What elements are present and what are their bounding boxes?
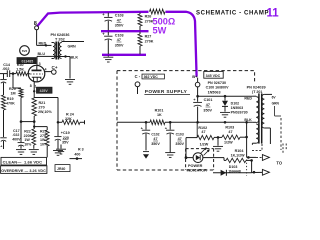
svg-text:400V: 400V [12,138,21,142]
svg-text:47: 47 [117,18,121,22]
svg-text:5W: 5W [153,25,167,35]
svg-text:1N4448: 1N4448 [228,169,241,173]
svg-text:PN 024039: PN 024039 [247,86,266,90]
svg-text:PN 026730: PN 026730 [208,81,226,85]
svg-text:470K: 470K [6,102,15,106]
svg-text:350V: 350V [115,24,124,28]
svg-text:R27: R27 [145,35,152,39]
svg-text:R103: R103 [225,126,234,130]
svg-text:11: 11 [267,8,280,20]
svg-text:PN026730: PN026730 [231,111,248,115]
svg-text:GRN: GRN [272,101,280,105]
svg-text:2W,10%: 2W,10% [38,110,52,114]
svg-text:1.66 VDC: 1.66 VDC [24,160,42,165]
svg-text:C103: C103 [115,14,124,18]
svg-text:220K: 220K [24,134,33,138]
svg-text:47: 47 [201,130,205,134]
svg-text:R101: R101 [155,108,164,112]
svg-text:4: 4 [45,67,47,71]
svg-text:C -: C - [135,74,141,79]
svg-text:SCHEMATIC - CHAMP: SCHEMATIC - CHAMP [196,11,269,17]
svg-text:350V: 350V [175,142,184,146]
svg-text:1/2W: 1/2W [200,143,209,147]
svg-text:+: + [0,145,2,149]
svg-text:1W: 1W [24,138,30,142]
svg-text:C17: C17 [13,129,20,133]
svg-text:.022: .022 [12,133,19,137]
svg-text:BLK: BLK [71,55,79,59]
svg-text:1N5063: 1N5063 [208,90,221,94]
svg-text:1K: 1K [157,113,162,117]
svg-text:R26: R26 [145,15,152,19]
svg-text:C100 16/800V: C100 16/800V [206,86,230,90]
svg-text:R20: R20 [9,87,16,91]
svg-text:BLU: BLU [38,52,46,56]
svg-text:—: — [17,160,21,165]
svg-text:1.5K: 1.5K [16,67,24,71]
svg-text:CLEAN: CLEAN [3,160,18,165]
svg-text:PN 624036: PN 624036 [51,33,70,37]
svg-text:R22: R22 [24,129,31,133]
svg-text:RED: RED [39,41,47,45]
svg-text:345 VDC: 345 VDC [206,74,221,78]
svg-text:400: 400 [74,152,80,156]
svg-text:270: 270 [39,105,45,109]
svg-text:350V: 350V [203,108,212,112]
svg-text:C102: C102 [151,132,159,136]
svg-text:GRN: GRN [68,44,77,48]
svg-text:R19: R19 [7,97,14,101]
svg-text:D102: D102 [231,101,240,105]
svg-text:47: 47 [178,137,182,141]
svg-text:BLK: BLK [244,118,252,122]
svg-text:1K,1/2W: 1K,1/2W [231,154,246,158]
svg-text:R104: R104 [235,149,245,153]
svg-text:JR40: JR40 [57,167,65,171]
svg-text:INDICATOR: INDICATOR [187,168,207,172]
svg-text:C103: C103 [115,33,124,37]
svg-text:C103: C103 [176,132,184,136]
svg-text:8: 8 [30,84,32,88]
svg-text:1M: 1M [11,91,16,95]
svg-text:425V: 425V [40,89,49,93]
svg-text:47: 47 [117,38,121,42]
svg-text:OVERDRIVE — 3.26 VDC: OVERDRIVE — 3.26 VDC [1,169,46,173]
svg-text:350V: 350V [115,43,124,47]
svg-text:R23: R23 [40,129,47,133]
svg-text:RED: RED [244,97,252,101]
svg-text:1/2W: 1/2W [224,140,233,144]
svg-text:C101: C101 [204,98,213,102]
svg-text:.002: .002 [2,67,9,71]
svg-text:(T 201: (T 201 [252,90,262,94]
svg-text:22K: 22K [65,117,72,121]
svg-text:270K: 270K [145,19,154,23]
svg-text:47: 47 [228,130,232,134]
svg-text:TO: TO [276,161,282,166]
svg-text:220: 220 [63,136,69,140]
svg-text:013485: 013485 [22,59,34,63]
svg-text:362 VDC: 362 VDC [144,75,159,79]
svg-text:R 24: R 24 [66,113,75,117]
svg-text:+C19: +C19 [61,131,70,135]
svg-text:1N5063: 1N5063 [231,106,244,110]
svg-text:R 3: R 3 [78,148,84,152]
svg-text:R21: R21 [39,101,46,105]
svg-text:R102: R102 [198,126,207,130]
svg-text:350V: 350V [151,142,160,146]
svg-text:270K: 270K [145,39,154,43]
svg-text:6V6: 6V6 [22,49,28,53]
svg-text:10%: 10% [24,143,32,147]
svg-text:35V: 35V [62,141,69,145]
svg-text:3: 3 [39,62,41,66]
svg-text:47: 47 [153,137,157,141]
svg-text:POWER: POWER [188,164,203,168]
svg-text:47: 47 [206,103,210,107]
